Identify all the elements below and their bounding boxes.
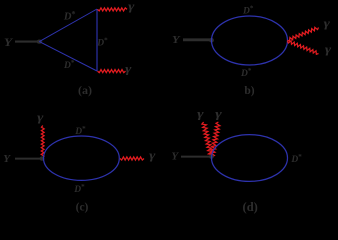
photon right (c) bbox=[120, 157, 144, 160]
svg-text:b): b) bbox=[244, 85, 254, 97]
D* line lower (a) bbox=[39, 42, 97, 71]
photon upper (b) bbox=[287, 27, 318, 41]
svg-text:γ: γ bbox=[215, 106, 222, 120]
svg-text:(d): (d) bbox=[243, 200, 258, 214]
D* line upper (a) bbox=[39, 9, 97, 42]
svg-text:(a): (a) bbox=[78, 83, 92, 97]
photon lower (b) bbox=[287, 41, 318, 55]
svg-text:γ: γ bbox=[37, 110, 43, 124]
photon top (a) bbox=[98, 8, 128, 11]
svg-text:γ: γ bbox=[125, 62, 131, 76]
photon right (d) bbox=[211, 122, 220, 157]
Y line (a) bbox=[15, 41, 39, 43]
vertex dot (c) bbox=[40, 156, 45, 160]
D* line vertical (a) bbox=[96, 9, 98, 71]
photon bottom (a) bbox=[98, 70, 126, 73]
photon left (d) bbox=[202, 122, 213, 157]
D* loop (d) bbox=[212, 135, 288, 182]
svg-text:(c): (c) bbox=[76, 202, 89, 214]
vertex dot (a) bbox=[37, 40, 43, 44]
svg-text:γ: γ bbox=[325, 42, 331, 56]
svg-text:γ: γ bbox=[149, 148, 155, 162]
photon vertical (c) bbox=[41, 126, 44, 158]
vertex dot (b) bbox=[209, 38, 214, 43]
Y line (c) bbox=[15, 158, 41, 160]
D* loop (b) bbox=[212, 16, 288, 65]
Y line (b) bbox=[183, 38, 210, 41]
D* loop (c) bbox=[44, 136, 120, 180]
svg-text:γ: γ bbox=[197, 106, 204, 120]
svg-text:γ: γ bbox=[128, 0, 134, 13]
svg-text:γ: γ bbox=[324, 16, 330, 30]
vertex dot (d) bbox=[209, 154, 214, 158]
Y line (d) bbox=[181, 156, 210, 158]
